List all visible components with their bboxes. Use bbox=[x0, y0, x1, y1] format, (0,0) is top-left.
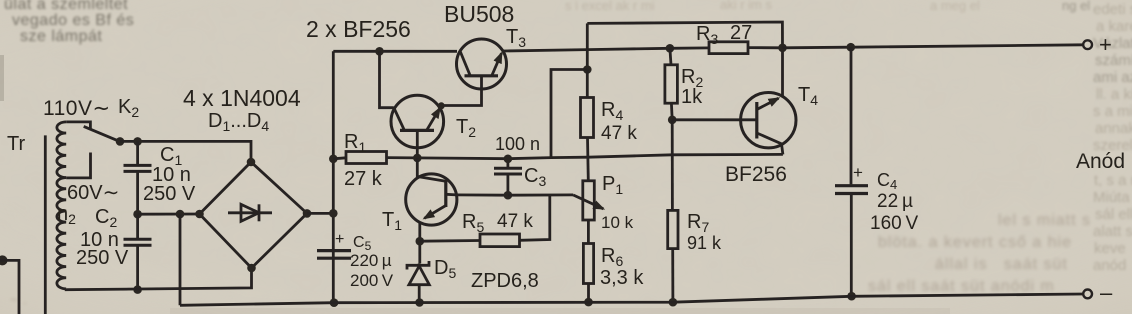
svg-text:47 k: 47 k bbox=[601, 123, 637, 144]
resistor R3 bbox=[670, 42, 783, 54]
svg-text:BF256: BF256 bbox=[725, 163, 787, 186]
svg-text:91 k: 91 k bbox=[687, 233, 722, 253]
transformer secondary winding n2 bbox=[57, 122, 66, 289]
node R7 rail bbox=[669, 298, 678, 307]
resistor R1 bbox=[333, 152, 417, 164]
transistor T3 bbox=[441, 39, 506, 106]
node T2 base R1 bbox=[413, 154, 422, 163]
node edge-left junction bbox=[0, 255, 8, 265]
node bridge top bbox=[247, 158, 256, 167]
svg-text:22 µ: 22 µ bbox=[877, 191, 913, 212]
svg-text:Anód: Anód bbox=[1076, 150, 1125, 173]
node C3 top bbox=[504, 155, 513, 164]
label C2 value 250V bbox=[76, 247, 129, 269]
capacitor C3 bbox=[494, 159, 522, 196]
svg-text:250 V: 250 V bbox=[143, 183, 196, 205]
svg-text:C2: C2 bbox=[95, 206, 117, 230]
label C4 plus sign bbox=[853, 163, 863, 182]
label C2 value 10n bbox=[80, 229, 119, 251]
wire T3 emitter to plus line bbox=[503, 48, 670, 51]
resistor R2 bbox=[665, 48, 678, 120]
ghost margin text top-left bbox=[4, 0, 128, 14]
node C3 bottom bbox=[504, 191, 513, 200]
node T1 emitter R5 bbox=[416, 237, 425, 246]
label C3 bbox=[524, 165, 546, 189]
wire top rail left drop bbox=[586, 23, 589, 69]
resistor R6 bbox=[583, 244, 593, 303]
ghost text bottom-right bbox=[998, 212, 1091, 230]
svg-text:C3: C3 bbox=[524, 165, 546, 189]
label minus terminal bbox=[1100, 280, 1113, 305]
bridge rectifier diamond D1...D4 bbox=[200, 162, 308, 268]
transistor T2 bbox=[391, 95, 444, 158]
label D1...D4 bbox=[208, 110, 269, 134]
node C2 bottom bbox=[133, 285, 142, 294]
transformer Tr label bbox=[7, 133, 25, 155]
ghost margin text right column bbox=[1093, 1, 1132, 18]
svg-text:R1: R1 bbox=[344, 131, 366, 155]
wire edge-left to bottom bbox=[0, 260, 19, 314]
svg-text:160 V: 160 V bbox=[870, 213, 919, 234]
svg-text:200 V: 200 V bbox=[350, 271, 394, 290]
label T2 bbox=[456, 116, 476, 140]
svg-text:K2: K2 bbox=[118, 96, 139, 120]
label R1 value 27k bbox=[344, 168, 383, 190]
label R7 value 91k bbox=[687, 233, 722, 253]
label R3 bbox=[696, 23, 718, 47]
svg-text:60V∼: 60V∼ bbox=[67, 182, 119, 204]
minus terminal bbox=[1083, 290, 1092, 299]
wire raw plus vertical bbox=[332, 51, 335, 302]
wire wiper line to P1 bbox=[508, 193, 573, 196]
svg-text:BU508: BU508 bbox=[444, 1, 514, 27]
wire sense node to T2-base line bbox=[551, 70, 587, 158]
svg-text:100 n: 100 n bbox=[495, 134, 540, 154]
label R1 bbox=[344, 131, 366, 155]
svg-text:P1: P1 bbox=[602, 173, 623, 197]
label R2 bbox=[681, 66, 703, 90]
wire T2 base line to C3 and T4 bbox=[417, 154, 783, 158]
svg-text:R5: R5 bbox=[462, 211, 484, 235]
potentiometer P1 wiper arrow bbox=[573, 195, 603, 209]
label 60V~ bbox=[67, 182, 119, 204]
node T2 emitter T3 base bbox=[438, 102, 445, 109]
svg-text:T2: T2 bbox=[456, 116, 476, 140]
wire midpoint to bridge left bbox=[138, 213, 200, 216]
label C1 value 250V bbox=[143, 183, 196, 205]
label C1 bbox=[160, 144, 182, 168]
svg-text:T1: T1 bbox=[382, 209, 402, 233]
capacitor C5 bbox=[317, 251, 351, 259]
label 2 x BF256 bbox=[306, 16, 411, 42]
wire 60V tap bbox=[66, 153, 90, 178]
svg-text:D5: D5 bbox=[434, 257, 456, 281]
node C5 bottom rail bbox=[330, 298, 339, 307]
label R6 value 3,3k bbox=[600, 267, 644, 289]
node raw plus bridge tap bbox=[329, 209, 338, 218]
svg-text:1k: 1k bbox=[681, 86, 703, 108]
svg-text:27 k: 27 k bbox=[344, 168, 383, 190]
label C4 value 160V bbox=[870, 213, 919, 234]
svg-text:–: – bbox=[1100, 280, 1113, 305]
capacitor C1 bbox=[124, 141, 152, 214]
node R6 rail bbox=[584, 298, 593, 307]
label C5 value 200V bbox=[350, 271, 394, 290]
svg-text:R3: R3 bbox=[696, 23, 718, 47]
svg-text:110V∼: 110V∼ bbox=[43, 97, 111, 120]
svg-text:+: + bbox=[853, 163, 863, 182]
svg-text:Tr: Tr bbox=[7, 133, 25, 155]
svg-text:+: + bbox=[335, 231, 344, 248]
node output sense R4 top bbox=[583, 65, 592, 74]
svg-text:27: 27 bbox=[730, 22, 752, 44]
wire AC2 winding bottom to bridge bottom bbox=[66, 268, 251, 290]
node C4 bottom rail bbox=[847, 292, 856, 301]
node plus line R2 tap bbox=[666, 44, 675, 53]
resistor R4 bbox=[581, 70, 594, 181]
resistor R5 bbox=[420, 195, 550, 247]
label T3 bbox=[506, 26, 526, 50]
wire T2 left electrode riser bbox=[380, 51, 394, 107]
label P1 value 10k bbox=[601, 213, 634, 232]
node C1 top bbox=[133, 137, 142, 146]
label C4 value 22u bbox=[877, 191, 913, 212]
svg-text:n2: n2 bbox=[57, 203, 76, 227]
label C5 plus sign bbox=[335, 231, 344, 248]
label R3 value 27 bbox=[730, 22, 752, 44]
label R5 bbox=[462, 211, 484, 235]
svg-text:220 µ: 220 µ bbox=[350, 251, 392, 270]
label R4 bbox=[601, 99, 623, 123]
label 4 x 1N4004 bbox=[183, 85, 301, 111]
label BU508 bbox=[444, 1, 514, 27]
svg-text:C4: C4 bbox=[877, 170, 897, 192]
label plus terminal bbox=[1099, 32, 1112, 57]
node K2 common bbox=[116, 137, 125, 146]
ghost text top edge bbox=[565, 0, 655, 13]
resistor R7 bbox=[668, 120, 678, 302]
wire winding top to 110V contact bbox=[66, 122, 90, 129]
label ZPD6,8 bbox=[471, 270, 539, 292]
label 100n bbox=[495, 134, 540, 154]
capacitor C4 bbox=[835, 47, 868, 296]
label C5 value 220u bbox=[350, 251, 392, 270]
node raw plus R1 tap bbox=[329, 155, 338, 164]
svg-text:3,3 k: 3,3 k bbox=[600, 267, 644, 289]
wire minus branch down to rail bbox=[179, 214, 182, 305]
node C4 top bbox=[847, 43, 856, 52]
label Anod bbox=[1076, 150, 1125, 173]
transformer primary lead wire bbox=[44, 135, 47, 314]
label P1 bbox=[602, 173, 623, 197]
wire bridge right to raw plus node bbox=[307, 212, 333, 215]
transistor T1 bbox=[406, 158, 457, 263]
wire minus rail bbox=[180, 294, 1083, 305]
wire output to plus terminal bbox=[783, 45, 1084, 48]
node bridge left bbox=[195, 210, 204, 219]
wire T1 base to C3 bottom bbox=[457, 193, 508, 196]
label R2 value 1k bbox=[681, 86, 703, 108]
capacitor C2 bbox=[124, 214, 152, 289]
svg-text:+: + bbox=[1099, 32, 1112, 57]
svg-text:ZPD6,8: ZPD6,8 bbox=[471, 270, 539, 292]
label n2 bbox=[57, 203, 76, 227]
svg-text:47 k: 47 k bbox=[497, 211, 533, 232]
label R7 bbox=[687, 211, 709, 235]
label K2 bbox=[118, 96, 139, 120]
node bridge bottom bbox=[247, 264, 256, 273]
label R6 bbox=[601, 245, 623, 269]
transistor T4 bbox=[741, 48, 796, 155]
label R5 value 47k bbox=[497, 211, 533, 232]
svg-text:T3: T3 bbox=[506, 26, 526, 50]
svg-text:R7: R7 bbox=[687, 211, 709, 235]
node R2 bottom T4 base bbox=[668, 116, 677, 125]
node T2 collector branch bbox=[375, 47, 384, 56]
label BF256 under T4 bbox=[725, 163, 787, 186]
label D5 bbox=[434, 257, 456, 281]
node minus branch bbox=[176, 210, 185, 219]
label R4 value 47k bbox=[601, 123, 637, 144]
svg-text:4 x 1N4004: 4 x 1N4004 bbox=[183, 85, 301, 111]
node D5 rail bbox=[415, 298, 424, 307]
svg-text:2 x BF256: 2 x BF256 bbox=[306, 16, 411, 42]
node bridge right bbox=[303, 209, 312, 218]
zener diode D5 bbox=[407, 261, 429, 303]
svg-text:T4: T4 bbox=[798, 84, 818, 108]
plus terminal bbox=[1083, 40, 1092, 49]
svg-text:D1...D4: D1...D4 bbox=[208, 110, 269, 134]
wire top loop corner to T2/T3 bbox=[333, 50, 457, 53]
label C4 bbox=[877, 170, 897, 192]
node C1-C2 midpoint bbox=[133, 210, 142, 219]
label T1 bbox=[382, 209, 402, 233]
potentiometer P1 body bbox=[583, 181, 595, 244]
wire output top rail bypass bbox=[587, 22, 782, 48]
label 110V~ bbox=[43, 97, 111, 120]
svg-text:250 V: 250 V bbox=[76, 247, 129, 269]
label C1 value 10n bbox=[152, 164, 191, 186]
wire T4 base bbox=[672, 118, 757, 121]
node R3 right output bbox=[778, 44, 787, 53]
label C5 bbox=[353, 234, 372, 253]
svg-text:R6: R6 bbox=[601, 245, 623, 269]
svg-text:R4: R4 bbox=[601, 99, 623, 123]
label C2 bbox=[95, 206, 117, 230]
bridge inner diode symbol bbox=[228, 204, 272, 221]
label T4 bbox=[798, 84, 818, 108]
switch K2 arm bbox=[84, 126, 121, 141]
svg-text:10 k: 10 k bbox=[601, 213, 634, 232]
wire K2 to bridge top bbox=[120, 141, 251, 162]
